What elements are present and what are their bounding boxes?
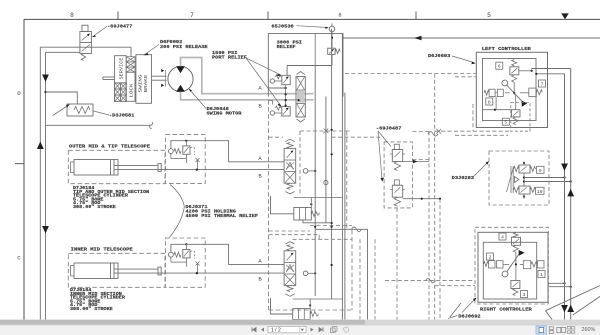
down arrow bus supply bottom: [561, 305, 568, 312]
left controller top reducing valve: [512, 60, 517, 67]
D3J0283 output lines: [523, 173, 525, 186]
swing spool valve: [285, 85, 287, 107]
toolbar prev page button: [261, 328, 264, 332]
svg-text:260%: 260%: [582, 327, 596, 333]
inner cylinder rod: [114, 268, 158, 270]
svg-text:-69J0477: -69J0477: [107, 24, 133, 30]
horizontal scrollbar thumb: [0, 320, 365, 325]
valve bank dashed enclosure: [268, 100, 270, 310]
svg-text:7: 7: [190, 12, 194, 19]
port relief A 1500psi: [270, 79, 274, 83]
relief D3J0581 spring: [74, 107, 90, 114]
junction on bus 2: [44, 91, 46, 93]
swing brake lock cell: [126, 72, 135, 101]
inner telescope spool spring bottom: [287, 286, 293, 292]
motor shaft: [152, 75, 167, 77]
inner telescope spool body: [284, 251, 296, 286]
swing brake service chamber: [115, 56, 127, 83]
port box 2: [487, 253, 494, 260]
pilot dashed horizontal y159.5: [412, 159, 429, 161]
svg-text:SWING MOTOR: SWING MOTOR: [207, 111, 242, 117]
tank line break hook: [150, 122, 153, 129]
joystick pivot circle: [502, 80, 508, 86]
bank internal manifold lines: [287, 65, 332, 67]
swing spool end chevrons: [297, 72, 305, 75]
svg-text:D: D: [17, 90, 21, 97]
leader D3J0283: [474, 162, 489, 177]
outer holding valve body: [183, 146, 190, 154]
supply line with arrow: [342, 37, 600, 39]
leader brace D6J0371: [170, 185, 185, 238]
port box 7: [539, 80, 546, 87]
work line B inner telescope: [158, 272, 284, 274]
orifice circle on x326: [324, 181, 328, 185]
valve 69J0477 solenoid box: [82, 25, 88, 31]
toolbar next view button: [343, 327, 348, 332]
bank dashed internal lines: [269, 136, 283, 138]
svg-text:C: C: [17, 255, 21, 262]
pilot dashed vertical x429: [428, 132, 430, 320]
svg-text:1: 1: [540, 272, 543, 278]
break diagonal bottom center: [450, 303, 461, 317]
grey work line A from motor: [181, 58, 314, 94]
up arrow on bus 1: [37, 142, 44, 150]
inner spool cell arrows: [287, 253, 294, 261]
view mode button continuous: [549, 327, 553, 334]
svg-text:D3J0283: D3J0283: [452, 175, 475, 181]
reducing valve 1 outlet with arrow: [403, 161, 429, 163]
reducing valve 2 outlet: [403, 198, 440, 200]
inner holding valve body: [183, 250, 190, 258]
left margin tick: [15, 163, 24, 165]
svg-text:RELIEF: RELIEF: [277, 44, 296, 50]
swing section body box: [268, 34, 343, 97]
motor triangle bottom: [176, 85, 185, 92]
svg-text:LEFT CONTROLLER: LEFT CONTROLLER: [482, 46, 531, 52]
down arrow on bus 2 lower: [42, 226, 49, 233]
svg-text:-D3J0581: -D3J0581: [109, 112, 135, 118]
swing brake top hatch spring: [126, 57, 135, 62]
shuttle bar: [510, 166, 512, 193]
svg-text:PORT RELIEF: PORT RELIEF: [212, 55, 247, 61]
svg-text:5: 5: [504, 120, 507, 126]
grey work line B from motor: [181, 92, 314, 100]
toolbar prev view button: [331, 327, 337, 333]
spool cell arrows: [287, 151, 294, 159]
svg-text:SWING: SWING: [140, 74, 144, 93]
view mode button continuous facing: [567, 327, 575, 334]
pilot dashed horizontal y280.6 with breaks: [385, 280, 475, 282]
swing brake lock chamber: [115, 83, 127, 101]
left controller left valve: [484, 90, 489, 95]
left controller right valve: [529, 88, 537, 96]
down arrow on bus 2: [42, 75, 49, 82]
right bus return vertical: [570, 69, 572, 320]
reducing valve 1: [394, 144, 399, 149]
outer cylinder rod end: [158, 164, 161, 172]
left controller outer box: [476, 52, 547, 127]
outer telescope spool spring top: [285, 139, 294, 141]
view mode button single page selected: [536, 326, 546, 334]
pilot dashed box lower mid: [269, 234, 320, 236]
ruler tick: [117, 12, 119, 20]
svg-text:D6J0693: D6J0693: [428, 53, 451, 59]
swing brake bottom hatch spring: [115, 83, 121, 89]
svg-text:200 PSI RELEASE: 200 PSI RELEASE: [160, 44, 208, 50]
swing spool body: [296, 77, 305, 118]
toolbar background: [0, 325, 600, 335]
pilot dashed line to left controller upper: [345, 73, 476, 75]
left controller outputs to buses: [532, 68, 571, 70]
svg-text:OUTER MID & TIP TELESCOPE: OUTER MID & TIP TELESCOPE: [69, 144, 150, 150]
svg-text:65J0530: 65J0530: [271, 24, 294, 30]
pilot dashed vertical x375: [374, 239, 376, 319]
svg-text:8: 8: [70, 12, 74, 19]
up arrow bus return: [567, 189, 574, 196]
right controller top valve: [514, 233, 519, 238]
tank line from relief: [46, 124, 151, 126]
pilot dashed vertical x397: [396, 208, 398, 320]
right controller dashed box: [475, 227, 548, 304]
inner cylinder rod end: [158, 267, 161, 275]
svg-text:5: 5: [487, 12, 491, 19]
work line A outer telescope: [186, 141, 284, 162]
outer telescope spool body: [284, 148, 296, 183]
leader to swing brake: [145, 45, 160, 55]
breather circle 65J0530: [331, 24, 333, 27]
right controller left valve: [484, 262, 489, 267]
outer spool pilot circle: [303, 169, 308, 174]
svg-text:1 / 2: 1 / 2: [271, 327, 281, 333]
leader to swing motor: [190, 90, 207, 109]
leader to 65J0530: [297, 26, 328, 28]
svg-text:10: 10: [537, 189, 543, 195]
outer holding valve dashed box: [165, 134, 205, 183]
outer holding valve internal wires: [171, 141, 187, 149]
shuttle check triangle: [515, 177, 520, 183]
inner telescope cylinder barrel: [74, 263, 118, 279]
valve 69J0477 top position arrow: [82, 34, 90, 41]
port box 5: [502, 118, 509, 125]
bank vertical line x331.6: [331, 29, 333, 299]
svg-text:6: 6: [338, 13, 341, 19]
sheet corner diagonal 1: [546, 286, 600, 311]
swing brake rod: [103, 76, 115, 78]
wire left bus to valve 69J0477: [40, 46, 131, 48]
inner holding valve pilot dashes: [191, 250, 195, 252]
work line B outer telescope: [158, 169, 284, 171]
port box 8: [486, 98, 493, 105]
right controller bottom valve: [511, 281, 520, 289]
pilot dashed vertical x473: [472, 104, 474, 131]
wire to relief D3J0581: [46, 92, 78, 104]
inner telescope dashed box: [68, 253, 165, 287]
swing brake pilot wire down: [130, 47, 132, 57]
port box 6: [496, 62, 503, 69]
left controller inner box: [483, 59, 537, 121]
port box 1: [538, 271, 545, 278]
leader to port relief A: [246, 58, 281, 75]
valve 69J0477 bottom position arrow: [82, 45, 90, 52]
svg-text:3: 3: [523, 292, 526, 298]
reducing valve 2: [394, 180, 399, 185]
outer holding valve pilot dashes: [191, 147, 195, 149]
motor triangle top: [176, 66, 185, 73]
svg-text:4500 PSI THERMAL RELIEF: 4500 PSI THERMAL RELIEF: [185, 214, 258, 219]
sheet border frame left: [23, 19, 25, 319]
plug cross on pilot line: [437, 129, 442, 134]
left controller pilot dashed subbox: [511, 103, 530, 132]
relief valve D3J0581 body: [67, 104, 93, 116]
bank right edge verticals: [341, 34, 343, 320]
valve 69J0477 spring: [81, 54, 86, 61]
inner cylinder port stubs: [71, 265, 75, 267]
compensator valve upper with spring: [294, 208, 312, 221]
bank dashed right edge: [346, 131, 348, 229]
outer telescope spool spring bottom: [287, 183, 293, 189]
outer telescope cylinder barrel: [74, 160, 118, 176]
down arrow bus supply: [561, 164, 568, 171]
left controller bottom wires: [483, 109, 512, 111]
leader D6J0692: [448, 316, 457, 319]
port box 3: [521, 291, 528, 298]
bank vertical line x315: [314, 66, 316, 297]
ruler tick: [267, 12, 269, 20]
left vertical bus 1: [39, 47, 41, 319]
right controller outputs: [548, 282, 565, 284]
svg-text:308.00" STROKE: 308.00" STROKE: [70, 307, 113, 312]
svg-text:-69J0487: -69J0487: [376, 126, 402, 132]
port relief B 1500psi: [270, 111, 274, 115]
right controller inner box: [483, 242, 536, 299]
view mode button facing: [557, 327, 566, 332]
inner spool pilot circle: [303, 271, 308, 276]
plug symbol below inner holding valve: [196, 262, 200, 266]
relief valve 9: [514, 167, 520, 172]
leader D6J0693: [452, 56, 474, 63]
svg-text:9: 9: [539, 168, 542, 174]
bank vertical line x326: [325, 97, 327, 223]
inner holding valve internal wires: [171, 244, 187, 252]
shaft rotation arrows: [161, 69, 164, 72]
joystick lever: [507, 85, 523, 102]
tank return line with breaks: [315, 229, 367, 319]
left vertical bus 2: [45, 52, 47, 319]
plug cross on x326: [324, 129, 329, 134]
port box 9: [537, 166, 545, 173]
port relief A outlet: [269, 87, 286, 89]
svg-text:2: 2: [489, 255, 492, 261]
right controller outer box: [478, 232, 548, 302]
sheet corner diagonal 2: [573, 296, 600, 315]
joystick lever right controller: [507, 254, 519, 272]
svg-text:LOCK: LOCK: [131, 83, 135, 98]
leader to port relief B: [246, 58, 281, 106]
leader to D3J0581: [94, 111, 110, 115]
right controller joystick handle: [519, 250, 525, 256]
inner telescope spool spring top: [285, 242, 294, 244]
inner holding valve check circle: [169, 252, 174, 257]
outer holding valve check circle: [169, 149, 174, 154]
swing motor D6J0648 circle: [168, 66, 193, 91]
port box 4: [499, 233, 506, 240]
svg-text:D6J0692: D6J0692: [458, 313, 481, 319]
right controller right valve: [523, 261, 531, 269]
toolbar last page button: [319, 327, 323, 331]
outer cylinder port stubs: [71, 161, 75, 163]
pilot dashed line to left controller lower: [455, 76, 476, 78]
wire second bus corner: [46, 51, 81, 53]
svg-text:SERVICE: SERVICE: [121, 57, 125, 80]
sheet border frame top: [24, 18, 600, 20]
relief D3J0581 arrow: [53, 105, 70, 116]
inner holding valve dashed box: [165, 238, 205, 287]
pilot dashed horizontal into right controller: [435, 285, 475, 287]
toolbar next page button: [311, 328, 314, 332]
compensator upper wires: [271, 196, 294, 214]
bank line y197.5: [294, 197, 343, 199]
horizontal scrollbar track: [0, 320, 600, 325]
leader to 69J0477: [94, 26, 108, 36]
svg-text:7: 7: [541, 82, 544, 88]
svg-text:RIGHT CONTROLLER: RIGHT CONTROLLER: [480, 306, 532, 312]
right bus supply vertical: [564, 74, 566, 320]
right controller internal wires: [505, 263, 509, 265]
main relief valve 3000psi: [328, 48, 335, 54]
ruler tick: [415, 12, 417, 20]
pilot break symbols between controllers: [428, 132, 438, 137]
svg-text:8: 8: [488, 100, 491, 106]
toolbar page number box: [268, 326, 306, 332]
up arrow bus return bottom: [567, 305, 574, 312]
svg-text:308.00" STROKE: 308.00" STROKE: [73, 205, 116, 210]
pilot dashed vertical x360: [359, 239, 361, 319]
pilot dashed horizontal y131.5: [412, 131, 429, 133]
work line A inner telescope: [186, 244, 284, 264]
outer telescope dashed box: [68, 150, 165, 183]
69J0487 dashed box: [384, 142, 412, 208]
flow arrow into sheet top: [561, 13, 569, 19]
pilot dashed vertical x440: [439, 199, 441, 320]
port relief B outlet: [269, 101, 273, 105]
leader 69J0487 upper: [378, 131, 391, 147]
svg-text:BRAKE: BRAKE: [145, 74, 149, 93]
svg-text:4: 4: [501, 235, 504, 241]
plug symbol below holding valve: [196, 158, 200, 162]
relief drain line: [331, 54, 333, 65]
D3J0283 dashed box: [489, 151, 549, 205]
toolbar first page button: [252, 327, 256, 331]
shuttle diagonal: [507, 167, 514, 192]
outer cylinder rod: [114, 165, 158, 167]
svg-text:INNER MID TELESCOPE: INNER MID TELESCOPE: [71, 247, 133, 253]
compensator valve lower with spring: [293, 309, 311, 320]
pilot dashed vertical x434.7: [434, 74, 436, 320]
swing brake housing: [136, 55, 152, 104]
joystick pivot circle right: [502, 271, 508, 277]
left controller bottom spring valve: [512, 110, 521, 117]
svg-text:6: 6: [498, 64, 501, 70]
pilot dashed horizontal y137: [332, 136, 385, 138]
valve 69J0477 body: [80, 32, 92, 54]
port box 10: [536, 187, 545, 194]
relief valve 10: [514, 188, 520, 193]
leader 69J0487 lower: [378, 131, 382, 179]
joystick handle: [522, 101, 528, 107]
